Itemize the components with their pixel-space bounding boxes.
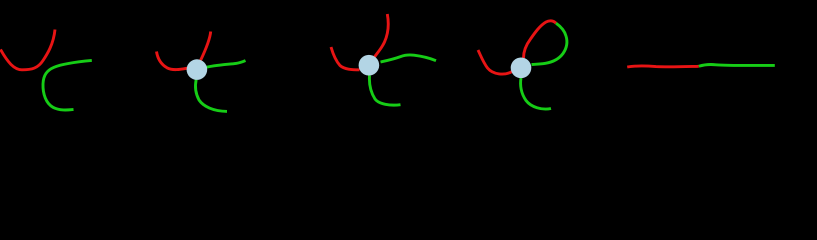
figure 1: green half-edge C-curve bbox=[43, 60, 92, 110]
figure 5: red half of straight edge bbox=[627, 65, 699, 69]
figure 2: vertex node bbox=[187, 59, 208, 80]
figure 4: red half of self-loop bbox=[524, 21, 557, 58]
figure 3: red half-edge hook from left bbox=[331, 47, 360, 70]
figure 5: green half of straight edge bbox=[699, 65, 775, 67]
figure 3: green half-edge wavy to right bbox=[381, 55, 437, 62]
figure 3: red half-edge from top bbox=[375, 14, 389, 57]
figure 3: green half-edge to bottom bbox=[369, 76, 400, 106]
figure 4: green half of self-loop bbox=[532, 23, 567, 64]
figure 4: green half-edge to bottom bbox=[521, 78, 551, 109]
figure 4: red half-edge hook from left bbox=[478, 50, 512, 74]
figure 2: red half-edge hook from left bbox=[157, 52, 189, 70]
figure 3: vertex node bbox=[359, 55, 380, 76]
figure 2: red half-edge from top bbox=[201, 32, 211, 61]
figure 2: green half-edge to right bbox=[206, 61, 246, 68]
figure 2: green half-edge to bottom bbox=[195, 80, 227, 112]
figure 1: red half-edge U-curve bbox=[1, 30, 56, 70]
figure 4: vertex node bbox=[511, 58, 532, 79]
